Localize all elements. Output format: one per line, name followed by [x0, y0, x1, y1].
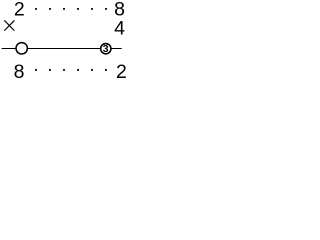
open circle marker: [16, 43, 27, 54]
svg-text:4: 4: [114, 18, 125, 40]
leader dots (top row): [35, 8, 107, 10]
svg-text:2: 2: [116, 61, 127, 82]
multiplication sign: [5, 21, 15, 31]
rule line (vinculum): [2, 48, 122, 50]
circled digit 3 marker: [101, 44, 111, 54]
leader dots (bottom row): [35, 69, 107, 71]
svg-text:8: 8: [14, 61, 25, 82]
svg-text:3: 3: [103, 43, 109, 55]
svg-text:2: 2: [14, 0, 25, 21]
